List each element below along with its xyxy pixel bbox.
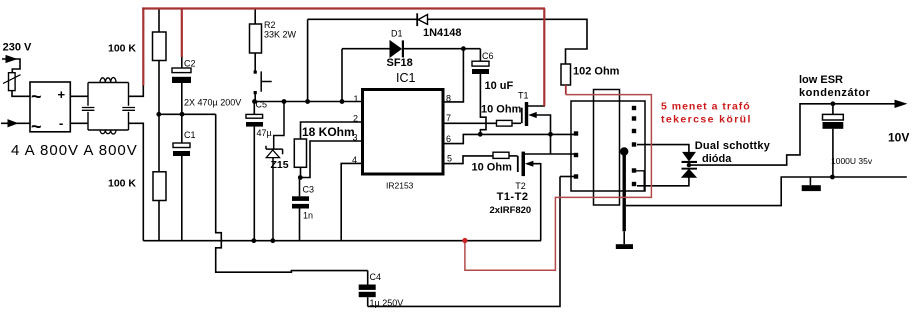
svg-text:1: 1	[354, 94, 359, 104]
svg-text:kondenzátor: kondenzátor	[799, 87, 871, 99]
wire pin5 to gate resistor	[444, 156, 493, 164]
svg-text:33K 2W: 33K 2W	[264, 30, 297, 40]
wire secondary internal link	[636, 171, 644, 191]
switch S1	[254, 71, 272, 102]
svg-text:1000U 35v: 1000U 35v	[831, 156, 873, 166]
wire pin6 VS line	[444, 134, 574, 143]
diode schottky lower	[682, 168, 698, 178]
svg-text:D1: D1	[391, 28, 403, 38]
node center tap circle	[620, 147, 628, 155]
wire pin2 to RT	[301, 122, 363, 139]
transistor T2	[515, 152, 576, 241]
svg-text:10 Ohm: 10 Ohm	[481, 104, 522, 116]
transformer TR1 inner core box	[594, 90, 620, 206]
node junction VCC-D1	[340, 99, 345, 104]
node junction 0V-cap	[830, 175, 835, 180]
wire pin8 riser	[444, 49, 463, 102]
svg-text:2X 470µ 200V: 2X 470µ 200V	[184, 98, 241, 108]
capacitor C6	[472, 49, 514, 135]
node junction red-rail	[462, 238, 467, 243]
svg-text:~: ~	[31, 117, 42, 137]
wire pin3 to RC node	[301, 141, 363, 178]
wire red sense loop	[465, 95, 652, 271]
resistor 100K lower	[108, 114, 166, 240]
node fuse rating label	[11, 142, 138, 159]
svg-text:C3: C3	[303, 185, 315, 195]
wire red riser to bridge plus	[142, 9, 144, 86]
wire center tap bus	[623, 153, 626, 244]
node primary winding dots	[574, 131, 578, 178]
wire capacitor midpoint bus	[159, 113, 216, 115]
node junction VB	[461, 46, 466, 51]
svg-text:+: +	[58, 87, 66, 102]
svg-text:C1: C1	[184, 130, 196, 140]
resistor 10 Ohm upper	[481, 104, 522, 126]
svg-text:18 KOhm: 18 KOhm	[302, 125, 355, 139]
varistor F1	[3, 73, 21, 91]
svg-text:230 V: 230 V	[3, 42, 32, 54]
wire bridge minus to filter	[70, 122, 88, 124]
node junction output-cap	[831, 101, 836, 106]
node input arrow 2	[8, 120, 17, 127]
node junction Z15-rail	[270, 238, 275, 243]
wire top boost line right	[428, 19, 588, 64]
svg-text:5: 5	[447, 154, 452, 164]
node junction RT-CT	[298, 175, 303, 180]
capacitor C5	[246, 100, 272, 241]
node junction VCC-1N4148	[305, 99, 310, 104]
svg-text:C4: C4	[370, 272, 382, 282]
svg-text:C6: C6	[482, 51, 494, 61]
wire C4 to transformer return	[368, 177, 560, 307]
wire 0V rail	[626, 177, 907, 206]
svg-text:1N4148: 1N4148	[423, 27, 462, 39]
wire top rail red	[142, 7, 545, 9]
node annotation 5 turns red	[661, 100, 752, 125]
bridge rectifier BR1	[30, 82, 70, 137]
node electrolytic label	[184, 98, 241, 108]
wire secondary top to diode	[637, 145, 689, 153]
diode D1 SF18	[387, 28, 413, 68]
svg-text:10V: 10V	[888, 131, 909, 145]
capacitor C4	[359, 271, 404, 308]
svg-text:IC1: IC1	[396, 71, 416, 85]
svg-text:-: -	[59, 116, 63, 131]
svg-text:dióda: dióda	[702, 153, 732, 165]
svg-text:Z15: Z15	[271, 159, 289, 171]
ground output	[802, 177, 821, 191]
wire filter minus out to bottom rail	[129, 123, 144, 240]
wire top boost line left	[308, 18, 418, 20]
node mosfet labels	[490, 191, 532, 216]
svg-text:102 Ohm: 102 Ohm	[573, 66, 620, 78]
wire varistor to bridge	[12, 91, 30, 97]
svg-text:IR2153: IR2153	[386, 181, 414, 191]
resistor 18 KOhm	[294, 125, 354, 178]
capacitor C2	[172, 57, 196, 115]
svg-text:T1-T2: T1-T2	[497, 191, 529, 203]
node secondary winding dots	[632, 106, 636, 186]
node junction VCC-Z15	[282, 99, 287, 104]
node junction VCC-C5	[252, 99, 257, 104]
svg-text:8: 8	[446, 94, 451, 104]
wire bridge plus to filter	[70, 95, 88, 97]
node output arrow	[895, 100, 906, 107]
svg-text:4 A 800V A 800V: 4 A 800V A 800V	[11, 142, 138, 159]
ground transformer	[616, 244, 633, 249]
svg-text:47µ: 47µ	[257, 128, 272, 138]
transistor T1	[518, 90, 551, 154]
node annotation low ESR	[799, 74, 871, 99]
svg-text:7: 7	[446, 113, 451, 123]
wire output to arrow	[689, 104, 901, 165]
wire input line N	[1, 122, 30, 124]
svg-text:C5: C5	[256, 100, 268, 110]
node output voltage label	[888, 131, 909, 145]
wire primary top tap	[560, 176, 575, 178]
node junction C5-rail	[251, 238, 256, 243]
node junction VS-midpoint	[548, 132, 553, 137]
capacitor C3	[292, 178, 314, 241]
node 230V input label	[3, 42, 32, 54]
svg-text:5 menet a trafó: 5 menet a trafó	[661, 100, 751, 112]
wire primary return from cap midpoint	[216, 114, 368, 272]
zener Z15	[266, 102, 289, 241]
svg-text:T1: T1	[518, 90, 529, 100]
capacitor 1000U 35v	[823, 104, 873, 177]
svg-text:T2: T2	[515, 181, 526, 191]
node input arrow 1	[6, 56, 16, 63]
svg-text:Dual schottky: Dual schottky	[695, 140, 771, 152]
op-amp U1 IC IR2153	[352, 71, 452, 191]
EMI filter L1	[82, 78, 135, 135]
svg-text:low ESR: low ESR	[799, 74, 843, 86]
node junction VS-C6	[478, 132, 483, 137]
wire pin4 to rail	[341, 163, 362, 240]
wire secondary bottom to diode	[637, 177, 689, 186]
svg-text:6: 6	[446, 134, 451, 144]
wire pin7 to gate resistor	[444, 122, 497, 124]
wire D1 cathode to C6	[404, 48, 480, 50]
wire filter plus out riser	[129, 85, 144, 96]
wire red riser to C2	[181, 9, 183, 58]
resistor 100K upper	[108, 9, 166, 114]
svg-text:10 uF: 10 uF	[485, 80, 514, 92]
svg-text:100 K: 100 K	[108, 43, 136, 55]
resistor 10 Ohm lower	[472, 152, 518, 173]
wire 1N4148 riser	[307, 19, 309, 101]
wire input line L	[2, 59, 20, 73]
svg-text:SF18: SF18	[387, 57, 413, 69]
svg-text:C2: C2	[184, 59, 196, 69]
svg-text:~: ~	[31, 87, 42, 107]
wire VCC node (pin1)	[254, 101, 361, 103]
diode schottky upper	[682, 152, 698, 163]
svg-text:1n: 1n	[303, 211, 313, 221]
svg-text:tekercse körül: tekercse körül	[661, 114, 752, 126]
resistor R2	[250, 9, 297, 71]
transformer TR1 outer box	[571, 101, 645, 191]
wire D1 anode riser	[342, 49, 390, 102]
svg-text:10 Ohm: 10 Ohm	[472, 162, 513, 174]
wire red 102ohm feed	[565, 85, 567, 95]
resistor 102 Ohm	[561, 64, 620, 85]
wire bottom rail	[143, 240, 541, 242]
svg-text:100 K: 100 K	[108, 178, 136, 190]
diode 1N4148	[417, 13, 461, 39]
node junction bus-resistor	[156, 112, 161, 117]
wire red riser to T1 drain	[543, 9, 545, 107]
node annotation dual schottky	[695, 140, 771, 165]
capacitor C1	[173, 114, 196, 240]
node junction diode common cathode	[687, 163, 691, 167]
node junction bus-caps	[180, 112, 185, 117]
svg-text:2xIRF820: 2xIRF820	[490, 205, 532, 216]
